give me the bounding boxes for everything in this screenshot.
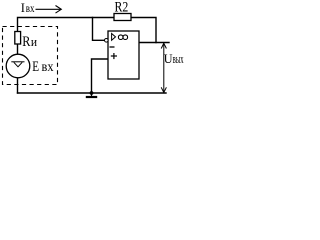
svg-text:R: R bbox=[22, 34, 30, 50]
wire: Eвх bottom to ground net bbox=[17, 77, 19, 93]
AC source sine symbol bbox=[11, 62, 24, 67]
wire: bottom ground net bbox=[18, 92, 167, 94]
wire: op-amp output to the right bbox=[139, 42, 169, 44]
wire: source internal connections (Rи to Eвх) bbox=[17, 44, 19, 55]
resistor Rи bbox=[15, 32, 21, 45]
resistor R2 bbox=[114, 14, 131, 21]
label E вх bbox=[32, 59, 53, 75]
svg-text:вх: вх bbox=[42, 60, 54, 75]
op-amp U1 body bbox=[108, 31, 139, 79]
ground junction node bbox=[90, 91, 94, 95]
svg-text:вх: вх bbox=[26, 1, 35, 15]
label Iвх (input current) bbox=[21, 1, 35, 15]
wire: top net from source top to R2 left (inverting input net) bbox=[18, 18, 115, 32]
source enclosure dashed box bbox=[3, 27, 58, 85]
wire: non-inverting input to ground net bbox=[92, 59, 109, 93]
svg-text:I: I bbox=[21, 1, 25, 15]
wire: drop from top net down to inverting input bubble bbox=[93, 18, 105, 41]
label Rи bbox=[22, 34, 37, 50]
op-amp minus sign (inverting input) bbox=[110, 46, 115, 48]
label Uвых bbox=[164, 51, 184, 66]
AC source Eвх circle bbox=[6, 54, 30, 78]
op-amp gain triangle bbox=[112, 34, 116, 41]
Uвых measurement arrow (double-headed) bbox=[161, 43, 166, 92]
ground symbol bbox=[86, 93, 97, 97]
op-amp infinity symbol bbox=[118, 35, 127, 40]
svg-text:R2: R2 bbox=[115, 0, 129, 15]
op-amp inverting input bubble bbox=[105, 39, 109, 43]
arrow for Iвх bbox=[36, 6, 62, 14]
svg-text:E: E bbox=[32, 59, 39, 75]
svg-text:и: и bbox=[31, 34, 37, 49]
svg-text:вых: вых bbox=[173, 52, 184, 66]
wire: R2 right lead over and down to output node bbox=[131, 18, 156, 43]
op-amp plus sign (non-inverting input) bbox=[111, 53, 117, 59]
